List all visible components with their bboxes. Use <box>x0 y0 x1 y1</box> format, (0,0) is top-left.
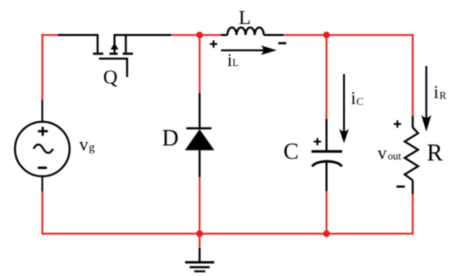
svg-text:i: i <box>351 88 356 108</box>
wire: top rail red into node A <box>171 34 200 36</box>
svg-text:L: L <box>239 7 251 29</box>
output polarity minus <box>397 186 405 188</box>
wire: capacitor branch black lower lead <box>326 162 328 191</box>
svg-text:C: C <box>283 139 298 164</box>
capacitor branch black upper lead <box>326 119 328 151</box>
diode D triangle <box>185 129 214 150</box>
transistor Q body stub with arrow <box>111 34 119 53</box>
transistor Q (NMOS) drain lead and corner <box>58 35 98 53</box>
capacitor polarity plus <box>314 138 321 145</box>
transistor Q source stub <box>125 34 127 53</box>
wire: diode branch black lower lead <box>199 150 201 177</box>
transistor Q gate bar and gate lead <box>99 59 127 77</box>
wire: ground stub black <box>199 248 201 262</box>
inductor L coils <box>227 27 263 35</box>
wire: bottom ground rail red <box>42 233 412 235</box>
wire: resistor branch red lower <box>412 194 414 235</box>
wire: top rail red from inductor to node B <box>284 34 327 36</box>
transistor Q source channel tick <box>123 53 133 55</box>
transistor Q body channel tick <box>109 53 117 55</box>
svg-text:L: L <box>232 58 238 69</box>
current arrow iL <box>221 45 277 55</box>
wire: red from node A to inductor <box>200 34 221 36</box>
voltage source sine symbol <box>34 145 54 153</box>
svg-text:D: D <box>162 126 179 151</box>
capacitor C top plate <box>312 150 343 153</box>
node B junction dot (output node) <box>323 32 330 39</box>
svg-text:i: i <box>434 82 439 102</box>
transistor Q drain channel tick <box>93 53 103 55</box>
wire: top rail red from node B to top-right corner and down right rail <box>327 34 413 116</box>
svg-text:out: out <box>388 151 402 162</box>
wire: diode branch red lower <box>199 177 201 234</box>
wire: left rail red upper segment <box>41 34 43 100</box>
ground symbol <box>185 262 214 271</box>
resistor branch black upper lead <box>412 116 414 128</box>
wire: capacitor branch red lower <box>326 191 328 234</box>
svg-text:v: v <box>378 143 387 163</box>
wire: top rail red from top-left corner to MOSFET drain lead <box>41 34 57 36</box>
svg-text:Q: Q <box>103 67 118 89</box>
wire: left rail black lead from source bottom <box>41 176 43 192</box>
svg-text:v: v <box>79 134 88 154</box>
capacitor branch red upper wire <box>326 35 328 119</box>
wire: ground stub red <box>199 234 201 248</box>
wire: black inductor left lead <box>221 34 227 36</box>
capacitor C curved bottom plate <box>312 161 342 166</box>
inductor polarity plus <box>210 40 217 47</box>
voltage source minus sign <box>38 167 47 169</box>
node C junction dot on bottom rail below capacitor <box>323 230 330 237</box>
voltage source vg circle <box>15 122 70 177</box>
node D junction dot on bottom rail at ground <box>196 230 203 237</box>
wire: left rail black lead into source top <box>41 100 43 123</box>
wire: diode branch red upper <box>199 35 201 93</box>
svg-text:g: g <box>89 140 95 154</box>
svg-text:C: C <box>356 97 363 108</box>
wire: left rail red lower segment <box>41 192 43 235</box>
current arrow iC <box>339 74 349 143</box>
current arrow iR <box>421 66 431 132</box>
wire: top rail black from body stub to red segment <box>115 34 172 36</box>
wire: resistor branch black lower lead <box>412 180 414 194</box>
node A junction dot (switch node) <box>196 32 203 39</box>
inductor polarity minus <box>278 42 286 44</box>
wire: diode branch black upper lead <box>199 93 201 128</box>
resistor R zigzag <box>405 127 418 180</box>
voltage source plus sign <box>38 127 48 136</box>
diode D cathode bar <box>186 127 211 129</box>
svg-text:R: R <box>439 91 446 102</box>
output polarity plus <box>394 120 401 127</box>
wire: black inductor right lead <box>264 34 284 36</box>
svg-text:R: R <box>427 140 443 166</box>
